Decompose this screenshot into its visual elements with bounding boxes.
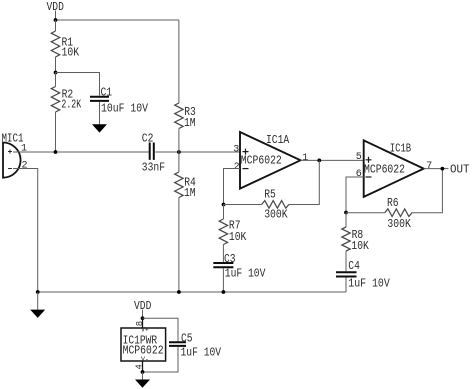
svg-text:2: 2 bbox=[22, 161, 28, 172]
capacitor C2 bbox=[150, 143, 154, 160]
wire ground rail bbox=[38, 291, 346, 293]
svg-text:1uF 10V: 1uF 10V bbox=[181, 346, 222, 359]
pin 7 number of IC1B bbox=[426, 161, 432, 172]
svg-text:1M: 1M bbox=[184, 117, 196, 130]
wire MIC1 pin1 to C2 bbox=[13, 151, 149, 153]
op-amp U IC1A bbox=[240, 132, 301, 189]
svg-text:3: 3 bbox=[233, 144, 239, 155]
svg-text:10K: 10K bbox=[351, 240, 368, 253]
label MIC1 bbox=[2, 132, 24, 145]
capacitor C4 bbox=[336, 272, 357, 276]
svg-text:C4: C4 bbox=[348, 260, 360, 273]
pin 8 number of IC1PWR bbox=[135, 321, 145, 326]
wire R1 to node bbox=[55, 57, 57, 73]
wire C5 bottom to pin4 node bbox=[143, 347, 179, 372]
wire top rail down to R3 bbox=[178, 20, 180, 103]
pin 4 lead of IC1PWR bbox=[142, 361, 144, 372]
svg-text:300K: 300K bbox=[264, 208, 287, 221]
wire R2 top lead bbox=[55, 73, 57, 87]
svg-text:1M: 1M bbox=[184, 187, 196, 200]
svg-text:C5: C5 bbox=[181, 332, 193, 345]
pin 6 number of IC1B bbox=[356, 169, 362, 180]
svg-text:C3: C3 bbox=[224, 253, 236, 266]
label R4 bbox=[184, 176, 196, 189]
wire R4 bottom to rail bbox=[178, 198, 180, 293]
svg-text:10uF 10V: 10uF 10V bbox=[101, 103, 148, 116]
svg-text:MCP6022: MCP6022 bbox=[241, 154, 282, 167]
MIC1 minus mark bbox=[8, 168, 12, 170]
label IC1B bbox=[390, 143, 412, 156]
wire C1 to ground bbox=[99, 102, 101, 124]
svg-text:6: 6 bbox=[356, 169, 362, 180]
resistor R2 bbox=[51, 87, 59, 113]
node VDD bottom junction bbox=[141, 316, 145, 320]
value 33nF bbox=[142, 161, 165, 174]
pin 4 number of IC1PWR bbox=[135, 364, 145, 369]
value MCP6022 IC1A bbox=[241, 154, 282, 167]
label C3 bbox=[224, 253, 236, 266]
svg-text:1: 1 bbox=[21, 144, 27, 155]
pin 5 number of IC1B bbox=[356, 152, 362, 163]
power VDD top label bbox=[47, 1, 64, 14]
resistor R8 bbox=[342, 227, 350, 251]
value 1uF 10V bbox=[181, 346, 222, 359]
wire C3 to rail bbox=[222, 268, 224, 292]
value 10K bbox=[229, 231, 246, 244]
label R8 bbox=[352, 229, 364, 242]
resistor R1 bbox=[51, 31, 59, 57]
wire rail to ground bbox=[37, 292, 39, 310]
value 10uF 10V bbox=[101, 103, 148, 116]
value 2.2K bbox=[61, 99, 81, 112]
pin 1 number of IC1A bbox=[302, 153, 308, 164]
wire IC1A output bbox=[301, 159, 364, 161]
wire R7 top lead bbox=[223, 205, 225, 220]
value 1M bbox=[184, 117, 196, 130]
pin label V- bbox=[141, 356, 149, 363]
wire VDD bottom stem bbox=[142, 310, 144, 319]
svg-text:10K: 10K bbox=[62, 46, 80, 59]
wire IC1A inverting input bbox=[224, 169, 241, 205]
wire IC1B output bbox=[424, 168, 449, 170]
box IC1PWR bbox=[121, 328, 166, 361]
svg-text:33nF: 33nF bbox=[142, 161, 165, 174]
svg-text:R5: R5 bbox=[264, 189, 276, 202]
resistor R3 bbox=[175, 103, 183, 129]
resistor R5 bbox=[262, 201, 289, 209]
resistor R6 bbox=[385, 209, 412, 217]
pin label V+ bbox=[141, 327, 149, 334]
svg-text:V+: V+ bbox=[141, 327, 149, 334]
wire VDD junction to C5 branch bbox=[143, 318, 179, 342]
IC1A plus mark bbox=[243, 149, 249, 155]
svg-text:OUT: OUT bbox=[450, 164, 470, 177]
node R4 rail junction bbox=[177, 290, 181, 294]
value 10K bbox=[62, 46, 80, 59]
node IC1A output junction bbox=[317, 159, 321, 163]
label IC1PWR bbox=[123, 334, 158, 347]
label C4 bbox=[348, 260, 360, 273]
label R7 bbox=[229, 220, 241, 233]
MIC1 plus mark bbox=[8, 150, 12, 154]
IC1B plus mark bbox=[366, 157, 372, 163]
svg-text:C2: C2 bbox=[142, 132, 154, 145]
label IC1A bbox=[266, 134, 289, 147]
value 1uF 10V bbox=[348, 278, 390, 291]
capacitor C3 bbox=[213, 263, 233, 267]
pin 2 number of IC1A bbox=[234, 162, 240, 173]
node R1/R2/C1 junction bbox=[54, 71, 58, 75]
ground below C1 bbox=[92, 124, 107, 132]
value 10K bbox=[351, 240, 368, 253]
node R6/R8 junction bbox=[344, 211, 348, 215]
svg-text:C1: C1 bbox=[101, 86, 113, 99]
value 300K bbox=[264, 208, 287, 221]
wire C4 to rail bbox=[345, 278, 347, 293]
label R2 bbox=[62, 89, 74, 102]
wire VDD stem to top rail bbox=[55, 11, 57, 21]
svg-text:4: 4 bbox=[135, 364, 145, 369]
label R5 bbox=[264, 189, 276, 202]
wire R8 top lead bbox=[345, 213, 347, 228]
ground below IC1PWR bbox=[135, 380, 150, 388]
label R3 bbox=[184, 106, 196, 119]
svg-text:8: 8 bbox=[135, 321, 145, 326]
value 300K bbox=[387, 218, 410, 231]
node pin4/C5 junction bbox=[141, 370, 145, 374]
svg-text:10K: 10K bbox=[229, 231, 246, 244]
pin 8 lead of IC1PWR bbox=[142, 318, 144, 328]
pin 1 number of MIC1 bbox=[21, 144, 27, 155]
wire R6 left lead bbox=[346, 212, 385, 214]
node MIC1 pin1 junction bbox=[54, 150, 58, 154]
capacitor C1 bbox=[90, 97, 109, 101]
node C2/R3/R4 junction bbox=[177, 150, 181, 154]
wire R1 top lead bbox=[55, 20, 57, 31]
resistor R7 bbox=[219, 219, 227, 245]
wire R2 bottom lead bbox=[55, 112, 57, 152]
resistor R4 bbox=[175, 172, 183, 198]
wire IC1B inverting input bbox=[346, 177, 364, 213]
svg-text:7: 7 bbox=[426, 161, 432, 172]
svg-text:R6: R6 bbox=[387, 197, 399, 210]
power VDD bottom label bbox=[134, 300, 151, 313]
svg-text:IC1B: IC1B bbox=[390, 143, 412, 156]
svg-text:MCP6022: MCP6022 bbox=[364, 164, 405, 177]
ground at rail left bbox=[30, 310, 45, 318]
label C5 bbox=[181, 332, 193, 345]
svg-text:2.2K: 2.2K bbox=[61, 99, 81, 112]
node OUT junction bbox=[441, 167, 445, 171]
pin 3 number of IC1A bbox=[233, 144, 239, 155]
label R6 bbox=[387, 197, 399, 210]
wire junction to ground bbox=[142, 372, 144, 380]
value MCP6022 IC1B bbox=[364, 164, 405, 177]
IC1B minus mark bbox=[366, 176, 372, 178]
value MCP6022 IC1PWR bbox=[123, 345, 164, 358]
wire top rail horizontal bbox=[56, 19, 179, 21]
svg-text:300K: 300K bbox=[387, 218, 410, 231]
pin 2 number of MIC1 bbox=[22, 161, 28, 172]
value 1M bbox=[184, 187, 196, 200]
label C1 bbox=[101, 86, 113, 99]
wire junction to C1 bbox=[56, 73, 100, 96]
wire R7 to C3 bbox=[222, 245, 224, 263]
label R1 bbox=[62, 37, 74, 50]
op-amp U IC1B bbox=[364, 140, 424, 197]
label OUT bbox=[450, 164, 470, 177]
wire R6 right lead up to OUT node bbox=[412, 169, 442, 213]
svg-text:IC1A: IC1A bbox=[266, 134, 289, 147]
svg-text:1: 1 bbox=[302, 153, 308, 164]
svg-text:1uF 10V: 1uF 10V bbox=[348, 278, 390, 291]
wire C2 to op-amp bbox=[155, 151, 240, 153]
value 1uF 10V bbox=[225, 267, 266, 280]
capacitor C5 bbox=[169, 342, 186, 346]
node rail left junction bbox=[36, 290, 40, 294]
node VDD top junction bbox=[54, 18, 58, 22]
node R5/R7 junction bbox=[222, 203, 226, 207]
microphone MIC1 bbox=[3, 143, 21, 178]
wire R8 to C4 bbox=[345, 251, 347, 271]
IC1A minus mark bbox=[243, 168, 249, 170]
label C2 bbox=[142, 132, 154, 145]
wire R5 left lead bbox=[224, 204, 262, 206]
svg-text:2: 2 bbox=[234, 162, 240, 173]
wire R5 right lead up to output bbox=[289, 160, 319, 204]
wire R3 bottom lead bbox=[178, 129, 180, 153]
svg-text:1uF 10V: 1uF 10V bbox=[225, 267, 266, 280]
wire R4 top lead bbox=[178, 152, 180, 172]
wire MIC1 pin2 bbox=[13, 169, 38, 293]
node C3 rail junction bbox=[222, 290, 226, 294]
svg-text:5: 5 bbox=[356, 152, 362, 163]
